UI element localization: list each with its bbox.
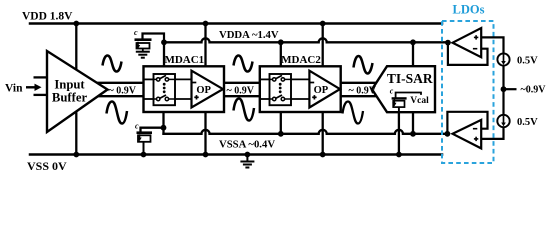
svg-text:Vin: Vin (5, 83, 23, 95)
op-amp OP1 (192, 71, 224, 108)
ground under c1 (136, 52, 150, 58)
signal sine before MDAC1 top (103, 56, 122, 72)
svg-text:VDD 1.8V: VDD 1.8V (22, 11, 73, 23)
svg-text:c: c (390, 86, 394, 95)
current source I2 (497, 115, 509, 127)
wire differential pair MDAC2 to TI-SAR (341, 82, 379, 84)
op-amp OP2 (309, 71, 340, 108)
switch box MDAC1 (154, 74, 176, 105)
svg-text:OP: OP (314, 85, 329, 96)
wire MDAC2 switch-cap vertical (280, 42, 282, 74)
junction dots VDDA rail (161, 39, 451, 45)
switch S4 bottom (270, 95, 292, 101)
TI-SAR block (372, 66, 435, 112)
current source I1 (497, 53, 509, 65)
svg-text:Vcal: Vcal (410, 96, 429, 106)
ground under VSS rail (240, 155, 254, 168)
svg-text:~ 0.9V: ~ 0.9V (349, 85, 377, 96)
wire VDD rail (30, 22, 442, 25)
input stubs inside MDAC2 (260, 78, 270, 80)
signal sine after MDAC2 bottom (343, 102, 364, 124)
svg-text:Buffer: Buffer (52, 91, 88, 105)
switch S1 top (154, 75, 176, 81)
wire MDAC1 opamp supply vertical VDD to VSS (204, 24, 206, 155)
svg-text:MDAC2: MDAC2 (281, 54, 321, 66)
svg-text:VSSA ~0.4V: VSSA ~0.4V (219, 138, 275, 150)
svg-text:OP: OP (196, 85, 211, 96)
svg-text:Input: Input (54, 78, 85, 92)
svg-text:c: c (135, 122, 139, 131)
wire MDAC1 switch-cap vertical to VDDA and VSSA (163, 42, 165, 74)
junction dots VSSA rail (161, 86, 507, 136)
svg-text:VSS 0V: VSS 0V (27, 159, 67, 173)
MDAC2 block (260, 54, 341, 112)
svg-text:~0.9V: ~0.9V (521, 85, 547, 96)
signal sine before MDAC1 bottom (107, 102, 128, 124)
junction dots VDD rail (73, 21, 325, 27)
capacitor Vcal (392, 93, 421, 113)
svg-text:VDDA ~1.4V: VDDA ~1.4V (219, 29, 279, 41)
wire differential pair buffer to MDAC1 (97, 82, 144, 84)
wire LDO reference chain (481, 37, 516, 138)
MDAC1 block (144, 54, 225, 112)
svg-text:MDAC1: MDAC1 (164, 54, 204, 66)
wire decap c2 top wire (141, 128, 164, 132)
wire differential pair MDAC1 to MDAC2 (224, 82, 260, 84)
Vin input stubs (34, 76, 48, 78)
switch box MDAC2 (270, 74, 292, 105)
wire VSSA rail with hops (164, 130, 448, 134)
svg-text:0.5V: 0.5V (517, 55, 538, 66)
svg-text:TI-SAR: TI-SAR (387, 71, 433, 86)
signal sine after MDAC2 top (354, 56, 373, 74)
wire VDDA rail with hops (164, 38, 448, 42)
svg-text:~ 0.9V: ~ 0.9V (109, 85, 137, 96)
wire MDAC2 opamp supply vertical (322, 24, 324, 155)
op-amp LDO2 lower (447, 112, 487, 149)
capacitor c2 VSSA decap (137, 133, 153, 155)
ellipsis dots (279, 83, 282, 93)
signal sine after MDAC1 bottom (234, 99, 255, 121)
svg-text:LDOs: LDOs (453, 3, 485, 17)
op-amp LDO1 upper (448, 28, 488, 65)
svg-text:c: c (134, 28, 138, 37)
Vin arrow (26, 84, 42, 91)
input stubs inside MDAC1 (144, 78, 154, 80)
switch S3 top (270, 75, 292, 81)
wire VSS rail (30, 153, 442, 156)
wire TI-SAR cal-cap to VSS vertical (398, 112, 400, 154)
junction dots VSS rail (73, 152, 401, 158)
input buffer U1 (34, 51, 108, 132)
signal sine after MDAC1 top (234, 56, 253, 72)
wire TI-SAR to VDDA and VSSA vertical (412, 42, 414, 134)
ellipsis dots (163, 83, 166, 93)
svg-text:~ 0.9V: ~ 0.9V (227, 85, 255, 96)
wire buffer supply vertical (75, 24, 77, 155)
LDOs dashed box (442, 21, 494, 163)
capacitor c1 VDDA decap (135, 34, 165, 52)
switch S2 bottom (154, 95, 176, 101)
svg-text:0.5V: 0.5V (517, 117, 538, 128)
